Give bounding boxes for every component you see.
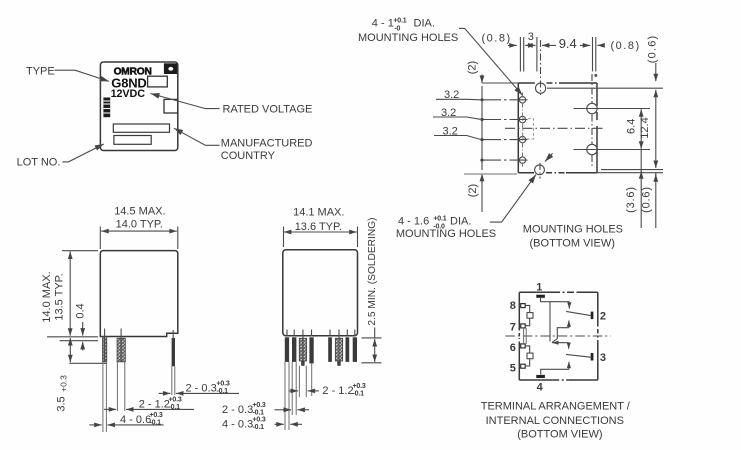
svg-text:14.1 MAX.: 14.1 MAX. xyxy=(293,207,344,219)
svg-text:14.0 MAX.: 14.0 MAX. xyxy=(41,271,53,322)
svg-text:2 - 1.2: 2 - 1.2 xyxy=(139,399,170,411)
svg-text:12VDC: 12VDC xyxy=(111,88,146,100)
svg-text:TYPE: TYPE xyxy=(26,66,55,78)
svg-text:2.5 MIN. (SOLDERING): 2.5 MIN. (SOLDERING) xyxy=(367,217,378,325)
svg-text:-0.1: -0.1 xyxy=(150,420,162,427)
svg-text:2: 2 xyxy=(600,310,606,322)
svg-text:7: 7 xyxy=(510,321,516,333)
svg-text:+0.3: +0.3 xyxy=(253,417,266,424)
svg-text:4 - 0.3: 4 - 0.3 xyxy=(222,418,253,430)
svg-text:MANUFACTURED: MANUFACTURED xyxy=(221,137,313,149)
svg-text:+0.3: +0.3 xyxy=(169,397,182,404)
svg-text:8: 8 xyxy=(510,300,516,312)
svg-text:4: 4 xyxy=(537,382,544,394)
svg-text:RATED VOLTAGE: RATED VOLTAGE xyxy=(223,104,313,116)
svg-text:-0.1: -0.1 xyxy=(217,388,229,395)
svg-text:(2): (2) xyxy=(467,61,479,74)
svg-text:(BOTTOM VIEW): (BOTTOM VIEW) xyxy=(530,237,615,249)
svg-text:(BOTTOM VIEW): (BOTTOM VIEW) xyxy=(517,428,602,440)
svg-text:+0.3: +0.3 xyxy=(353,383,366,390)
svg-text:14.0 TYP.: 14.0 TYP. xyxy=(116,219,163,231)
svg-text:(3.6): (3.6) xyxy=(625,186,637,213)
svg-text:4 - 1.6: 4 - 1.6 xyxy=(398,216,429,228)
svg-text:2 - 1.2: 2 - 1.2 xyxy=(322,385,353,397)
svg-text:4 - 1: 4 - 1 xyxy=(372,18,394,30)
svg-text:1: 1 xyxy=(536,281,542,293)
svg-text:TERMINAL ARRANGEMENT /: TERMINAL ARRANGEMENT / xyxy=(481,400,631,412)
svg-text:13.6 TYP.: 13.6 TYP. xyxy=(295,221,342,233)
svg-text:3: 3 xyxy=(528,31,534,43)
svg-text:2 - 0.3: 2 - 0.3 xyxy=(222,404,253,416)
svg-text:2 - 0.3: 2 - 0.3 xyxy=(186,383,217,395)
svg-text:MOUNTING HOLES: MOUNTING HOLES xyxy=(396,228,496,240)
svg-text:LOT NO.: LOT NO. xyxy=(17,156,61,168)
svg-text:3: 3 xyxy=(600,352,606,364)
svg-text:14.5 MAX.: 14.5 MAX. xyxy=(114,205,165,217)
svg-text:DIA.: DIA. xyxy=(450,216,471,228)
svg-text:12.4: 12.4 xyxy=(639,117,651,138)
svg-text:(2): (2) xyxy=(467,184,479,197)
svg-text:MOUNTING HOLES: MOUNTING HOLES xyxy=(358,32,458,44)
svg-text:6: 6 xyxy=(510,342,516,354)
svg-text:4 - 0.6: 4 - 0.6 xyxy=(120,414,151,426)
svg-text:MOUNTING HOLES: MOUNTING HOLES xyxy=(523,223,623,235)
svg-text:(0.8): (0.8) xyxy=(611,40,641,52)
svg-text:-0.1: -0.1 xyxy=(253,410,265,417)
svg-text:5: 5 xyxy=(510,363,516,375)
svg-text:+0.3: +0.3 xyxy=(253,402,266,409)
svg-text:-0.1: -0.1 xyxy=(169,404,181,411)
svg-text:+0.3: +0.3 xyxy=(217,381,230,388)
svg-text:+0.3: +0.3 xyxy=(150,412,163,419)
svg-text:-0.1: -0.1 xyxy=(253,424,265,431)
svg-text:+0.1: +0.1 xyxy=(433,216,446,223)
svg-text:(0.6): (0.6) xyxy=(640,186,652,213)
svg-text:INTERNAL CONNECTIONS: INTERNAL CONNECTIONS xyxy=(486,415,624,427)
svg-text:DIA.: DIA. xyxy=(414,18,435,30)
svg-text:(0.8): (0.8) xyxy=(482,33,512,45)
svg-text:6.4: 6.4 xyxy=(625,119,637,134)
svg-text:13.5 TYP.: 13.5 TYP. xyxy=(54,273,66,320)
svg-text:(0.6): (0.6) xyxy=(647,35,659,64)
svg-text:+0.3: +0.3 xyxy=(59,375,69,392)
svg-text:+0.1: +0.1 xyxy=(393,18,406,25)
svg-text:COUNTRY: COUNTRY xyxy=(221,150,276,162)
svg-text:-0.1: -0.1 xyxy=(353,391,365,398)
svg-text:9.4: 9.4 xyxy=(559,36,577,51)
svg-text:3.5: 3.5 xyxy=(56,396,68,411)
svg-text:0.4: 0.4 xyxy=(75,303,87,318)
